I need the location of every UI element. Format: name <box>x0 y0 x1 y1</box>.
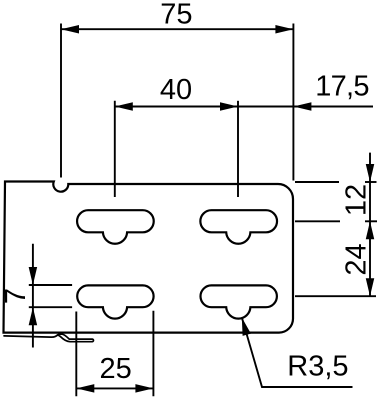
dim line 40 / 17,5 <box>115 106 373 108</box>
right dim line 12/24 <box>369 153 371 297</box>
right ext y=295.5 <box>295 295 376 297</box>
arrow 40 right / 17,5 left <box>220 102 238 111</box>
arrow 75 right <box>275 25 293 34</box>
arrow 40 left <box>115 102 133 111</box>
slot row1 col2 <box>200 210 277 244</box>
ext line slot col1 center <box>114 101 116 197</box>
svg-text:12: 12 <box>341 184 373 216</box>
ext line 25 right <box>152 311 154 397</box>
arrow 17,5 right <box>293 102 311 111</box>
arrow 25 left <box>76 384 94 393</box>
svg-text:40: 40 <box>160 74 192 106</box>
arrow R3,5 leader <box>242 317 251 336</box>
svg-text:R3,5: R3,5 <box>287 351 348 383</box>
svg-text:17,5: 17,5 <box>315 71 368 103</box>
left ext y=307 <box>29 306 72 308</box>
arrow 24 bottom (down) <box>366 278 375 296</box>
part outline: rail plate <box>4 182 294 333</box>
ext line notch center <box>60 24 62 178</box>
svg-text:7: 7 <box>0 288 32 304</box>
svg-text:25: 25 <box>99 353 131 385</box>
ext line slot col2 center <box>237 101 239 197</box>
ext line 25 left <box>75 312 77 397</box>
svg-text:75: 75 <box>160 0 192 31</box>
bottom lip line <box>4 335 58 337</box>
arrow 12 top (down) <box>366 164 375 182</box>
left ext y=283.8 <box>29 284 72 286</box>
dim line 25 <box>76 387 153 389</box>
left dim line 7 <box>32 244 34 348</box>
slot row1 col1 <box>77 210 154 244</box>
svg-text:24: 24 <box>341 243 373 275</box>
ext line right edge top <box>292 24 294 181</box>
arrow 7 bottom (up) <box>29 307 38 325</box>
arrow 24 top (up) <box>366 221 375 239</box>
dim line 75 <box>61 28 293 30</box>
leader R3,5 <box>242 317 353 387</box>
bottom hem tab <box>58 334 94 342</box>
slot row2 col2 <box>201 285 277 318</box>
arrow 75 left <box>61 25 79 34</box>
right ext y=221.5 <box>295 220 340 222</box>
right ext y=182 <box>295 181 339 183</box>
arrow 7 top (down) <box>29 267 38 285</box>
arrow 25 right <box>135 384 153 393</box>
slot row2 col1 <box>77 285 153 318</box>
